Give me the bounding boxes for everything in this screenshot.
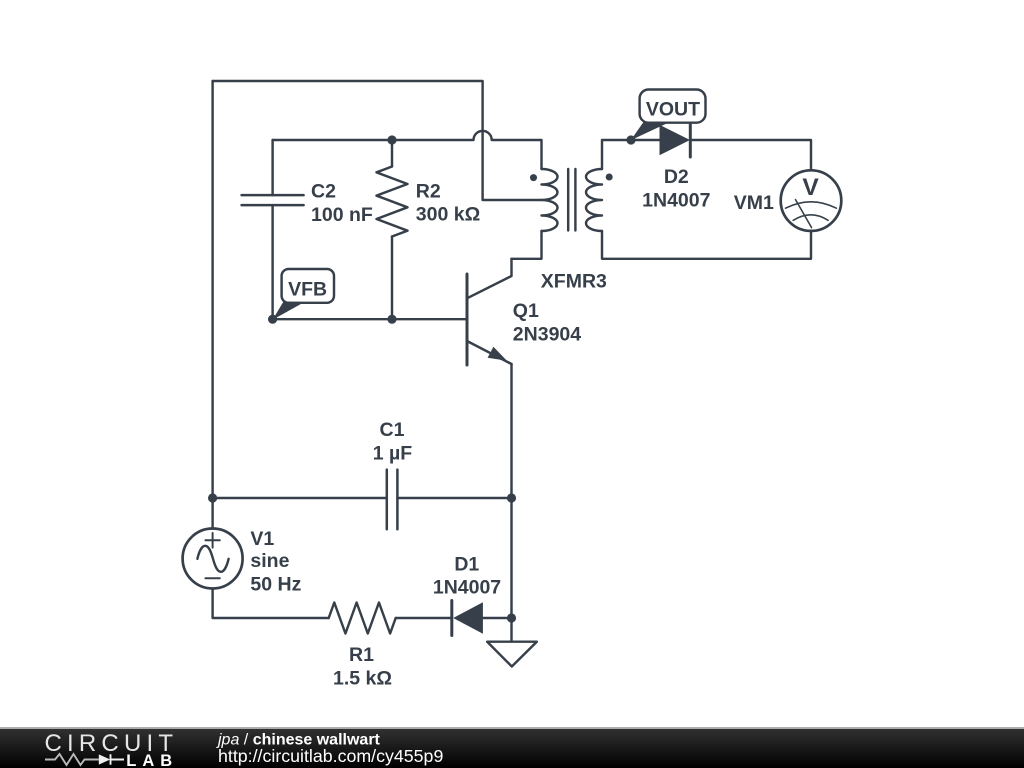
logo resistor-diode squiggle [45,754,124,765]
wire D2 to VM1 [690,140,811,170]
wire V1 bottom to R1 [213,589,329,619]
wire R1 to D1 [396,617,452,619]
svg-text:VM1: VM1 [734,192,774,214]
wire R2 bottom lead [391,237,393,320]
wire C1 to emitter rail [397,497,511,499]
svg-text:2N3904: 2N3904 [513,323,581,345]
wire transformer primary bottom to Q1 collector [512,231,542,259]
junction emitter / C1 node [507,493,516,502]
capacitor C2 [242,195,304,205]
junction R2 top node [387,135,396,144]
svg-text:VFB: VFB [288,278,327,300]
wire top-left loop to transformer center tap [213,81,542,200]
diode D2 [660,125,691,158]
wire secondary bottom loop [602,231,811,259]
wire left rail [211,81,213,529]
svg-text:D2: D2 [664,166,689,188]
capacitor C1 [387,470,398,530]
junction V1 / C1 node [208,493,217,502]
svg-text:http://circuitlab.com/cy455p9: http://circuitlab.com/cy455p9 [218,746,443,766]
svg-text:VOUT: VOUT [646,99,700,121]
diode D1 [452,601,483,636]
svg-text:1N4007: 1N4007 [433,577,501,599]
svg-text:100 nF: 100 nF [311,204,373,226]
junction VFB node [268,315,277,324]
junction R2 bottom / base node [387,315,396,324]
source V1 [183,529,243,589]
wire R2 top lead [391,140,393,167]
svg-text:D1: D1 [454,554,479,576]
wire D1 to ground junction [483,617,512,619]
transformer XFMR3 [530,169,613,231]
svg-text:300 kΩ: 300 kΩ [416,204,480,226]
svg-text:R1: R1 [349,644,374,666]
resistor R2 [377,167,408,237]
svg-text:R2: R2 [416,180,441,202]
wire secondary top lead [602,140,660,169]
wire C2 bottom lead [271,205,273,319]
svg-text:1 µF: 1 µF [373,443,412,465]
svg-text:V1: V1 [250,528,274,550]
wire V1 to C1 [213,497,387,499]
junction VOUT node [626,135,635,144]
transistor Q1 [467,259,512,365]
voltmeter VM1 [781,170,842,231]
wire C2/R2 top with hop over vertical [273,131,542,169]
wire C2 top lead [271,140,273,195]
wire emitter rail [510,364,512,618]
svg-text:50 Hz: 50 Hz [250,574,301,596]
svg-text:sine: sine [250,550,289,572]
svg-text:XFMR3: XFMR3 [541,270,607,292]
svg-text:C2: C2 [311,180,336,202]
svg-text:V: V [802,174,819,201]
svg-text:C1: C1 [380,419,405,441]
wire base (VFB to Q1) [273,318,467,320]
footer bar [0,727,1024,768]
junction D1 / ground node [507,613,516,622]
resistor R1 [329,603,396,634]
svg-text:1N4007: 1N4007 [642,189,710,211]
svg-text:1.5 kΩ: 1.5 kΩ [333,668,392,690]
svg-text:LAB: LAB [126,752,178,768]
svg-text:Q1: Q1 [513,300,539,322]
node flag VOUT [631,90,706,141]
node flag VFB [273,269,334,320]
ground [487,618,537,667]
